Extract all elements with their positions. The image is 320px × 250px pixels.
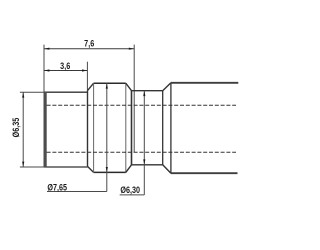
arrowhead 3,6 right (82, 69, 87, 71)
arrowhead 7,6 left (44, 48, 49, 50)
part: bulge chamfer bottom-right (126, 165, 132, 173)
part: cone top diagonal (163, 83, 171, 91)
dimension o6,35 top extension line (20, 91, 44, 93)
part: bulge right face vertical (131, 91, 133, 165)
arrowhead o6,35 top (22, 92, 24, 97)
arrowhead o7,65 top (106, 83, 108, 88)
arrowhead 3,6 left (44, 69, 49, 71)
part: neck right vertical (162, 91, 164, 165)
dimension o7,65 vertical line through bulge (106, 83, 108, 191)
svg-text:3,6: 3,6 (60, 60, 70, 71)
hidden line top dashed (47, 104, 236, 106)
part: bulge chamfer top-right (126, 83, 132, 91)
part: bulge tangent line left (93, 83, 95, 172)
arrowhead 7,6 right (129, 48, 134, 50)
dimension line 7,6 (44, 48, 134, 50)
part: bulge flat bottom edge (94, 171, 126, 173)
part: flange chamfer bottom-left (88, 166, 94, 172)
part: right cylinder top edge (171, 82, 238, 84)
part: small cylinder top edge (44, 91, 88, 93)
part: bulge flat top edge (94, 82, 126, 84)
arrowhead o6,35 bottom (22, 162, 24, 167)
part: right cylinder bottom edge (171, 172, 238, 174)
dimension line o6,35 vertical (22, 92, 24, 167)
hidden line bottom dashed (47, 151, 236, 153)
leader underline o6,30 (120, 194, 145, 196)
part: cone right vertical (170, 83, 172, 173)
svg-text:7,6: 7,6 (84, 37, 94, 48)
svg-text:Ø6,30: Ø6,30 (120, 184, 140, 195)
part: flange left face vertical (87, 91, 89, 167)
part: cone bottom diagonal (163, 165, 171, 173)
dimension 3,6 extension line right (step) (86, 62, 88, 91)
part: neck top edge (132, 90, 163, 92)
part: neck bottom edge (132, 164, 163, 166)
dimension o6,30 vertical line through neck (143, 91, 145, 195)
svg-text:Ø7,65: Ø7,65 (47, 181, 67, 192)
dimension line 3,6 (44, 70, 87, 72)
arrowhead o6,30 bottom (143, 159, 145, 164)
dimension 7,6 extension line left (43, 45, 45, 93)
dimension o6,35 bottom extension line (20, 166, 44, 168)
part: bulge tangent line right (125, 83, 127, 172)
leader underline o7,65 (47, 191, 107, 193)
dimension 7,6 extension line right (133, 45, 135, 153)
part: left face thick bar (44, 92, 47, 168)
part: flange chamfer top-left (88, 83, 94, 90)
part: small cylinder bottom edge (44, 166, 88, 168)
svg-text:Ø6,35: Ø6,35 (10, 117, 21, 137)
arrowhead o6,30 top (143, 91, 145, 96)
arrowhead o7,65 bottom (106, 167, 108, 172)
